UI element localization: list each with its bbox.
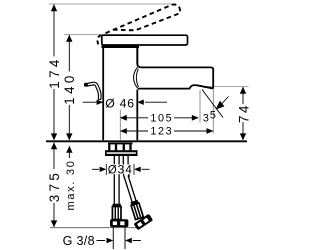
svg-text:140: 140 — [62, 72, 77, 105]
spout — [137, 48, 213, 89]
under-counter flange plate — [108, 143, 133, 145]
hose right: end nut — [134, 214, 154, 231]
hose left: ferrule — [113, 204, 121, 207]
angle callout 35 (aerator) — [202, 90, 229, 125]
svg-text:3: 3 — [118, 163, 124, 176]
svg-text:4: 4 — [125, 163, 132, 176]
hose right: braided section — [131, 203, 143, 220]
svg-text:G 3/8: G 3/8 — [63, 234, 95, 248]
svg-text:174: 174 — [47, 56, 62, 89]
dimension 174 — [47, 4, 62, 140]
reference line hose end (for 375) — [50, 227, 139, 229]
extension line lever-top level — [64, 34, 130, 36]
spout-body intersection crescent — [133, 67, 138, 88]
svg-text:123: 123 — [150, 126, 173, 138]
lever handle (solid) — [102, 35, 188, 47]
extension line aerator level (for 74) — [203, 86, 249, 88]
svg-text:3: 3 — [203, 113, 209, 125]
supply tube left (vertical) — [114, 156, 119, 204]
dimension 375 — [47, 142, 62, 227]
centerline of body — [119, 110, 121, 140]
hose left: braided section — [112, 207, 121, 220]
dimension 140 — [62, 35, 77, 141]
dimension 105 — [120, 112, 199, 124]
dimension diameter 46 — [83, 96, 167, 110]
extension line aerator vertical — [199, 90, 201, 123]
svg-text:74: 74 — [236, 103, 251, 123]
lever handle raised (dashed) — [97, 4, 180, 46]
svg-text:Ø: Ø — [108, 163, 117, 176]
hose right angled section — [119, 172, 155, 231]
hose right: ferrule — [130, 200, 138, 205]
extension line top (raised lever apex level) — [49, 3, 173, 5]
dimension 123 — [120, 126, 213, 138]
dimension diameter 34 — [92, 163, 150, 176]
svg-text:max. 30: max. 30 — [65, 159, 77, 210]
dimension 74 — [236, 87, 251, 141]
svg-text:5: 5 — [210, 109, 216, 121]
svg-text:Ø 46: Ø 46 — [105, 96, 135, 110]
studs and tubes between flange and nut — [109, 144, 130, 150]
hose left: end nut G3/8 — [110, 219, 128, 227]
faucet body — [103, 48, 137, 141]
svg-text:375: 375 — [47, 170, 62, 203]
dimension max. 30 — [65, 146, 77, 211]
dimension G 3/8 — [63, 223, 141, 250]
worktop / counter line — [46, 140, 247, 142]
svg-text:105: 105 — [150, 112, 173, 124]
supply tube right (vertical part) — [123, 156, 129, 179]
drain pull rod (bent outlined tube at rear) — [84, 83, 100, 98]
extension line spout end vertical — [212, 89, 214, 134]
mounting nut — [105, 150, 138, 156]
